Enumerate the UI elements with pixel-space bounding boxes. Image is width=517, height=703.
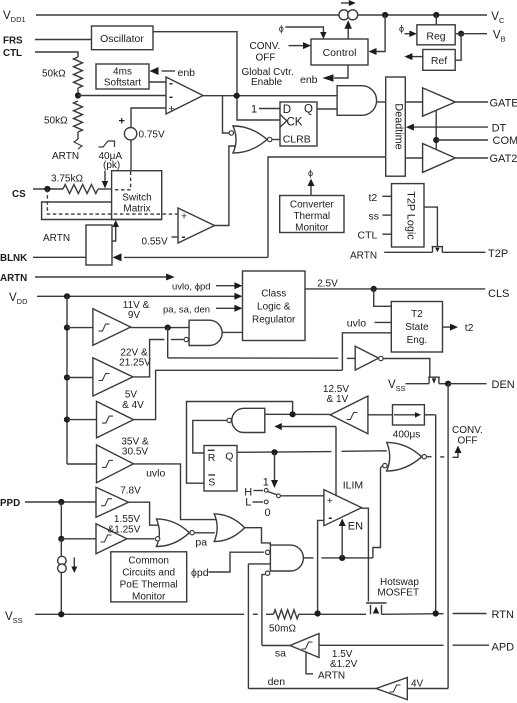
svg-text:ILIM: ILIM [343,480,363,492]
svg-text:+: + [119,116,125,128]
svg-text:Deadtime: Deadtime [393,103,405,149]
svg-text:State: State [405,322,429,333]
svg-text:-: - [169,90,173,104]
svg-text:PPD: PPD [0,498,20,509]
svg-text:Logic &: Logic & [257,302,291,313]
svg-text:Circuits and: Circuits and [122,568,175,579]
svg-text:L: L [245,497,251,509]
svg-text:CONV.: CONV. [250,41,281,52]
svg-text:OFF: OFF [256,53,276,64]
svg-text:CK: CK [287,116,303,128]
svg-text:uvlo: uvlo [347,318,366,330]
svg-text:ϕ: ϕ [308,168,313,178]
svg-text:-: - [169,76,173,90]
svg-text:T2P Logic: T2P Logic [405,191,417,240]
svg-text:50kΩ: 50kΩ [44,116,68,127]
svg-text:MOSFET: MOSFET [377,588,419,599]
svg-text:enb: enb [300,74,318,86]
svg-text:50mΩ: 50mΩ [269,624,296,635]
svg-text:Q: Q [304,104,313,116]
svg-text:Thermal: Thermal [293,211,330,222]
svg-text:T2P: T2P [488,248,508,260]
svg-text:DT: DT [492,123,507,135]
svg-text:GAT2: GAT2 [490,153,517,165]
svg-text:ARTN: ARTN [52,151,79,162]
svg-text:ss: ss [369,211,380,223]
svg-text:& 1V: & 1V [327,394,349,405]
svg-text:-: - [328,511,332,525]
svg-text:Switch: Switch [122,193,151,204]
svg-text:+: + [181,211,187,223]
svg-text:Monitor: Monitor [132,592,166,603]
svg-text:GATE: GATE [490,98,517,110]
svg-text:Ref: Ref [431,55,447,67]
svg-text:Regulator: Regulator [252,315,296,326]
svg-text:FRS: FRS [3,36,23,47]
svg-text:2.5V: 2.5V [317,279,338,290]
svg-text:uvlo, ϕpd: uvlo, ϕpd [172,282,211,293]
svg-text:pa: pa [195,536,207,548]
svg-text:RTN: RTN [492,609,514,621]
svg-text:1: 1 [251,104,257,116]
svg-text:ARTN: ARTN [0,273,27,284]
svg-text:CTL: CTL [358,230,378,242]
svg-text:Control: Control [323,47,357,59]
svg-text:CTL: CTL [3,48,22,59]
svg-text:Class: Class [261,289,286,300]
svg-text:1: 1 [263,477,269,489]
svg-text:-: - [182,230,186,244]
svg-text:4V: 4V [411,679,424,690]
svg-text:9V: 9V [128,310,141,321]
svg-text:DEN: DEN [492,379,515,391]
svg-text:pa, sa, den: pa, sa, den [163,305,210,316]
svg-text:ϕ: ϕ [279,24,284,34]
svg-text:Common: Common [128,556,169,567]
svg-text:&1.25V: &1.25V [108,525,141,536]
svg-text:R: R [208,452,216,464]
svg-text:(pk): (pk) [103,160,120,171]
svg-text:t2: t2 [369,192,378,204]
svg-text:ARTN: ARTN [318,671,345,682]
svg-text:+: + [169,103,175,115]
svg-text:den: den [268,676,286,688]
svg-text:7.8V: 7.8V [120,486,141,497]
svg-text:CS: CS [12,189,26,200]
svg-text:CLS: CLS [488,288,509,300]
svg-text:EN: EN [348,521,363,533]
svg-text:Reg: Reg [426,31,445,43]
svg-text:& 4V: & 4V [122,400,144,411]
svg-text:OFF: OFF [458,436,478,447]
svg-text:COM: COM [493,135,517,147]
svg-text:3.75kΩ: 3.75kΩ [51,174,83,185]
svg-text:Enable: Enable [251,77,283,88]
svg-text:Softstart: Softstart [104,78,141,89]
svg-text:Oscillator: Oscillator [100,33,144,45]
svg-text:0: 0 [265,507,271,519]
svg-text:Q: Q [225,451,233,463]
svg-text:21.25V: 21.25V [119,358,151,369]
svg-text:ϕ: ϕ [399,24,404,34]
svg-text:Eng.: Eng. [407,335,428,346]
svg-text:t2: t2 [465,322,474,334]
svg-text:CLRB: CLRB [283,134,311,146]
svg-text:Monitor: Monitor [295,223,329,234]
svg-text:0.55V: 0.55V [142,237,168,248]
svg-text:5V: 5V [125,390,138,401]
svg-text:uvlo: uvlo [146,468,165,480]
svg-text:Matrix: Matrix [123,204,150,215]
svg-text:50kΩ: 50kΩ [42,69,66,80]
svg-text:1.55V: 1.55V [114,514,140,525]
svg-text:0.75V: 0.75V [139,130,165,141]
svg-text:4ms: 4ms [113,67,132,78]
svg-text:Converter: Converter [290,200,335,211]
svg-text:+: + [327,495,333,507]
svg-text:ARTN: ARTN [43,233,70,244]
svg-text:PoE Thermal: PoE Thermal [120,580,178,591]
svg-text:CONV.: CONV. [452,425,483,436]
svg-text:400μs: 400μs [393,430,420,441]
svg-text:APD: APD [492,642,515,654]
svg-text:Hotswap: Hotswap [380,577,419,588]
svg-text:BLNK: BLNK [0,253,27,264]
svg-text:D: D [283,104,291,116]
svg-text:30.5V: 30.5V [122,447,148,458]
svg-text:S: S [208,477,215,489]
svg-text:enb: enb [178,67,196,79]
svg-text:&1.2V: &1.2V [330,659,358,670]
svg-text:ϕpd: ϕpd [191,567,209,579]
svg-text:T2: T2 [411,309,423,320]
svg-text:ARTN: ARTN [350,251,377,262]
svg-text:sa: sa [275,648,286,660]
